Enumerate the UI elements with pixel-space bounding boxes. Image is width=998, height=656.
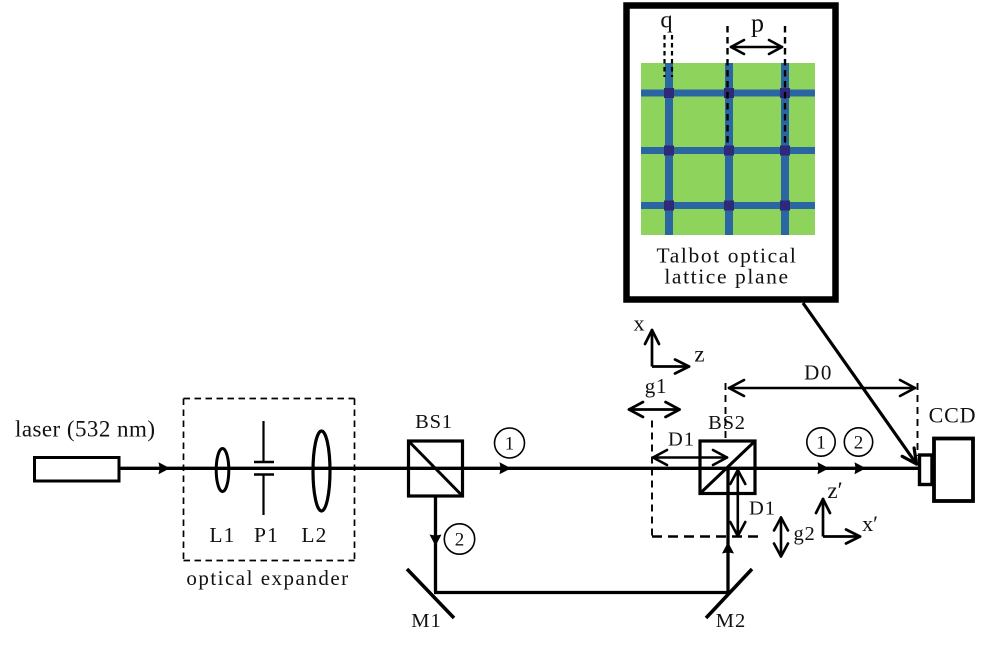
svg-text:BS2: BS2 xyxy=(708,412,746,434)
svg-text:z: z xyxy=(694,342,704,367)
svg-text:BS1: BS1 xyxy=(415,411,453,433)
svg-text:q: q xyxy=(660,7,672,34)
svg-text:L1: L1 xyxy=(209,523,235,547)
svg-text:g2: g2 xyxy=(793,523,815,545)
svg-text:P1: P1 xyxy=(254,523,279,547)
svg-text:2: 2 xyxy=(854,433,864,454)
svg-text:z′: z′ xyxy=(827,478,842,503)
svg-text:L2: L2 xyxy=(301,523,327,547)
svg-text:2: 2 xyxy=(455,530,465,551)
svg-text:D1: D1 xyxy=(749,498,776,520)
svg-text:x′: x′ xyxy=(862,511,878,536)
svg-text:laser (532 nm): laser (532 nm) xyxy=(15,417,155,442)
svg-text:D1: D1 xyxy=(668,428,695,450)
svg-text:g1: g1 xyxy=(645,374,668,398)
svg-text:1: 1 xyxy=(505,434,515,455)
svg-text:p: p xyxy=(751,9,764,38)
svg-text:x: x xyxy=(634,311,645,336)
svg-text:1: 1 xyxy=(816,433,826,454)
svg-text:M1: M1 xyxy=(411,610,441,632)
svg-text:M2: M2 xyxy=(716,610,746,632)
svg-text:D0: D0 xyxy=(804,361,833,385)
svg-text:CCD: CCD xyxy=(929,403,977,428)
svg-text:optical expander: optical expander xyxy=(186,566,349,590)
svg-text:lattice plane: lattice plane xyxy=(664,264,789,288)
